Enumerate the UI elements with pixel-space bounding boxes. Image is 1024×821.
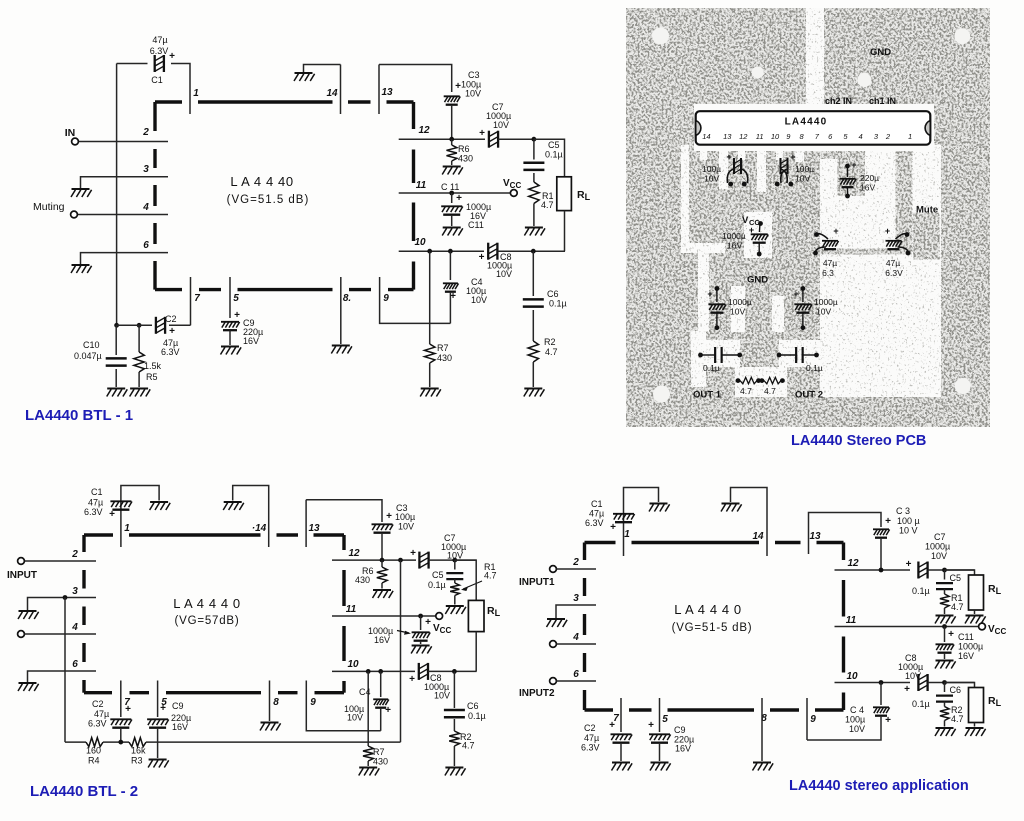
capacitor C9 220u 16V	[221, 322, 240, 330]
svg-text:4: 4	[859, 132, 863, 141]
ground C2 (stereo)	[612, 763, 633, 771]
svg-text:0.1µ: 0.1µ	[703, 363, 720, 373]
wire pin2	[557, 568, 597, 570]
svg-text:+: +	[948, 629, 954, 640]
wire RL1 bottom	[974, 610, 976, 614]
ground R5	[130, 389, 151, 397]
svg-text:+: +	[904, 684, 910, 695]
terminal INPUT1	[550, 566, 557, 573]
svg-text:+: +	[648, 720, 654, 731]
node rail-R5	[137, 323, 142, 328]
load RL1 (stereo)	[945, 570, 975, 575]
svg-text:10 V: 10 V	[899, 526, 918, 536]
svg-text:LA4440 stereo application: LA4440 stereo application	[789, 778, 969, 794]
svg-text:13: 13	[308, 523, 320, 534]
wire pin8 (stereo)	[761, 698, 763, 761]
svg-text:(VG=51.5 dB): (VG=51.5 dB)	[227, 194, 310, 206]
ground RL1	[965, 616, 986, 624]
wire pin14 bracket	[731, 488, 768, 557]
node pin12-C5 (stereo)	[942, 568, 947, 573]
svg-text:+: +	[906, 559, 912, 570]
svg-text:+: +	[885, 715, 891, 726]
svg-text:10V: 10V	[795, 174, 810, 184]
feedback row R4 R3	[65, 741, 86, 743]
svg-text:GND: GND	[747, 275, 768, 286]
capacitor C3 100u 10V	[444, 96, 461, 104]
title: LA4440 stereo PCB panel	[0, 0, 1, 1]
op-amp U3 LA4440 IC body (stereo)	[585, 543, 844, 711]
ground C11 (stereo)	[935, 661, 956, 669]
svg-text:430: 430	[458, 154, 473, 164]
svg-text:12: 12	[847, 558, 859, 569]
svg-text:+: +	[609, 720, 615, 731]
svg-text:LA4440 BTL - 2: LA4440 BTL - 2	[30, 783, 138, 800]
svg-text:1: 1	[908, 132, 912, 141]
svg-text:5: 5	[233, 293, 239, 304]
wire pin3	[81, 177, 169, 188]
svg-text:+: +	[726, 152, 731, 162]
svg-text:16V: 16V	[727, 241, 742, 251]
svg-text:14: 14	[702, 132, 710, 141]
pcb capacitor 47u 6.3V right	[896, 234, 909, 253]
IC footprint LA4440 on PCB	[694, 104, 934, 151]
wire pin13 to C3	[379, 65, 452, 93]
node pin12-C3	[449, 137, 454, 142]
svg-text:R2: R2	[544, 337, 556, 347]
svg-text:10V: 10V	[465, 89, 481, 99]
wire RL riser	[455, 560, 476, 600]
node pin12-C3	[380, 558, 385, 563]
resistor R2 4.7 (stereo)	[944, 702, 946, 707]
svg-text:C3: C3	[468, 70, 480, 80]
svg-text:C5: C5	[950, 573, 962, 583]
svg-text:L A 4 4 40: L A 4 4 40	[230, 174, 293, 189]
svg-text:47µ: 47µ	[589, 509, 604, 519]
node pin10-C4	[378, 669, 383, 674]
svg-text:+: +	[160, 703, 166, 714]
wire pin11	[399, 192, 511, 194]
ground pin3	[71, 189, 92, 197]
svg-text:R6: R6	[458, 144, 470, 154]
svg-text:IN: IN	[65, 127, 76, 139]
svg-text:1000µ: 1000µ	[728, 297, 752, 307]
capacitor C9 220u 16V (stereo)	[659, 698, 661, 732]
wire pin5 chain	[157, 681, 159, 718]
wire pin10	[399, 250, 484, 252]
wire pin10 row	[332, 670, 415, 672]
title: LA4440 BTL-2 schematic panel	[0, 0, 1, 1]
svg-text:4.7: 4.7	[545, 347, 558, 357]
svg-text:+: +	[833, 226, 838, 236]
svg-text:0.1µ: 0.1µ	[806, 363, 823, 373]
capacitor C1 47u 6.3V	[117, 63, 148, 65]
PCB copper islands inside channel	[820, 145, 940, 260]
capacitor C6 0.1u	[532, 251, 534, 296]
svg-text:2: 2	[142, 127, 149, 138]
wire pin9 to C4	[306, 681, 380, 731]
svg-text:47µ: 47µ	[152, 35, 167, 45]
svg-text:C11: C11	[468, 220, 484, 230]
svg-text:+: +	[410, 548, 416, 559]
ground R6	[373, 590, 394, 598]
svg-text:C4: C4	[359, 687, 371, 697]
resistor R5 1.5k	[138, 325, 140, 352]
svg-text:C 4: C 4	[850, 705, 864, 715]
svg-text:1.5k: 1.5k	[144, 361, 162, 371]
svg-text:16V: 16V	[675, 744, 691, 754]
resistor R1 4.7 (stereo)	[944, 589, 946, 594]
svg-text:10V: 10V	[931, 551, 947, 561]
PCB copper board textured background	[626, 8, 990, 427]
wire pin4	[25, 633, 97, 635]
svg-text:220µ: 220µ	[860, 173, 879, 183]
wire pin11 row	[332, 615, 436, 617]
svg-text:7: 7	[194, 293, 200, 304]
svg-text:6.3V: 6.3V	[88, 719, 107, 729]
svg-text:+: +	[125, 704, 131, 715]
svg-text:10V: 10V	[471, 295, 487, 305]
svg-text:0.1µ: 0.1µ	[549, 299, 567, 309]
svg-text:16V: 16V	[958, 651, 974, 661]
svg-text:10V: 10V	[496, 269, 512, 279]
pcb capacitor 1000u 16V at VCC	[758, 221, 763, 226]
wire feedback to riser	[146, 741, 401, 743]
svg-text:10V: 10V	[434, 691, 450, 701]
svg-text:C5: C5	[548, 140, 560, 150]
svg-text:GND: GND	[870, 47, 891, 58]
wire pin4 muting	[78, 214, 169, 216]
wire pin11 row (stereo)	[835, 626, 979, 628]
svg-text:0.1µ: 0.1µ	[912, 699, 930, 709]
ground pin8	[331, 346, 352, 354]
wire RL bottom	[475, 632, 477, 672]
svg-text:C11: C11	[958, 632, 974, 642]
ground C10	[107, 389, 128, 397]
node pin3 rail	[63, 595, 68, 600]
wire pin12 row (stereo)	[835, 569, 911, 571]
ground R2 (stereo)	[935, 728, 956, 736]
svg-text:R3: R3	[131, 756, 143, 766]
wire pin6	[557, 680, 597, 682]
svg-text:10: 10	[846, 671, 858, 682]
svg-text:8.: 8.	[343, 293, 351, 304]
svg-text:C2: C2	[584, 723, 596, 733]
svg-text:+: +	[479, 128, 485, 139]
node pin10-C4	[448, 249, 453, 254]
node pin12-C5	[452, 558, 457, 563]
svg-text:9: 9	[310, 697, 316, 708]
svg-text:LA4440: LA4440	[785, 117, 828, 128]
capacitor C8 1000u 10V	[488, 243, 497, 260]
svg-text:C6: C6	[547, 289, 559, 299]
ground pin3	[547, 619, 568, 627]
svg-text:R7: R7	[437, 343, 449, 353]
svg-text:INPUT1: INPUT1	[519, 577, 555, 588]
svg-text:4: 4	[142, 202, 149, 213]
svg-text:+: +	[450, 291, 456, 302]
svg-text:6.3V: 6.3V	[150, 46, 169, 56]
svg-text:+: +	[790, 152, 795, 162]
svg-text:+: +	[479, 252, 485, 263]
terminal VCC (stereo)	[979, 623, 986, 630]
svg-text:ch1 IN: ch1 IN	[869, 96, 896, 106]
svg-text:1000µ: 1000µ	[958, 642, 983, 652]
svg-text:+: +	[885, 226, 890, 236]
svg-text:6.3V: 6.3V	[84, 507, 103, 517]
capacitor C5 0.1u (stereo)	[944, 570, 946, 580]
ground R7	[420, 389, 441, 397]
capacitor C2 47u 6.3V (BTL-2)	[120, 681, 122, 718]
svg-text:4.7: 4.7	[740, 386, 752, 396]
ground R2	[524, 389, 545, 397]
wire pin14 bracket to ground	[233, 486, 269, 548]
svg-text:C1: C1	[591, 499, 603, 509]
title: LA4440 BTL-1 schematic panel	[0, 0, 1, 1]
svg-text:+: +	[409, 674, 415, 685]
capacitor C10 0.047u	[115, 325, 117, 355]
svg-text:10V: 10V	[816, 307, 831, 317]
svg-text:C10: C10	[83, 340, 100, 350]
svg-text:LA4440 BTL - 1: LA4440 BTL - 1	[25, 407, 133, 424]
resistor R2 4.7	[528, 341, 538, 362]
svg-text:C 3: C 3	[896, 506, 910, 516]
svg-text:0.1µ: 0.1µ	[468, 711, 486, 721]
capacitor C7 1000u 10V (BTL-2)	[419, 552, 428, 569]
IC pad numbers row	[702, 132, 912, 141]
svg-text:1: 1	[193, 88, 199, 99]
svg-text:R7: R7	[373, 747, 385, 757]
node pin11-C11 (stereo)	[942, 624, 947, 629]
pcb capacitor 0.1u right	[777, 353, 782, 358]
node pin10-C6	[531, 249, 536, 254]
ground R7	[359, 768, 380, 776]
ground RL2	[965, 728, 986, 736]
svg-text:13: 13	[809, 531, 821, 542]
svg-text:16V: 16V	[172, 722, 188, 732]
svg-text:4: 4	[572, 632, 579, 643]
svg-text:+: +	[109, 509, 115, 520]
pcb capacitor 0.1u left	[698, 353, 703, 358]
wire pin4	[557, 643, 597, 645]
wire pin10 row (stereo)	[835, 682, 911, 684]
capacitor C8 1000u 10V (BTL-2)	[419, 663, 428, 680]
svg-text:12: 12	[348, 548, 360, 559]
terminal Muting	[71, 211, 78, 218]
resistor R7 430 (BTL-2)	[367, 671, 369, 746]
svg-text:47µ: 47µ	[584, 733, 599, 743]
capacitor C8 1000u 10V (stereo)	[918, 674, 927, 691]
svg-text:3: 3	[573, 593, 579, 604]
wire pin8	[340, 277, 342, 344]
capacitor C7 1000u 10V	[489, 131, 498, 148]
load RL (BTL-2)	[468, 600, 484, 631]
terminal INPUT	[18, 558, 25, 565]
PCB routing channels (etched white areas)	[681, 8, 941, 397]
ground C9	[148, 760, 169, 768]
resistor R4 160	[86, 738, 103, 747]
PCB overall faint speckle overlay	[626, 8, 990, 427]
resistor R1 4.7 (BTL-2)	[454, 579, 456, 583]
ground R6	[442, 167, 463, 175]
capacitor C11 1000u 16V (stereo)	[944, 627, 946, 643]
svg-text:+: +	[851, 160, 856, 170]
svg-text:1000µ: 1000µ	[814, 297, 838, 307]
svg-text:4.7: 4.7	[764, 386, 776, 396]
capacitor C9 220u 16V (BTL-2)	[147, 719, 169, 727]
node pin11-C11	[449, 191, 454, 196]
svg-text:9: 9	[383, 293, 389, 304]
svg-text:+: +	[234, 310, 240, 321]
resistor R6 430 (BTL-2)	[381, 560, 383, 567]
ground C1 bracket	[150, 502, 171, 510]
svg-text:1: 1	[124, 523, 130, 534]
svg-text:430: 430	[373, 757, 388, 767]
op-amp U2 LA4440 IC body (BTL-2)	[84, 535, 344, 693]
svg-text:12: 12	[739, 132, 748, 141]
svg-text:+: +	[169, 51, 175, 62]
ground C9	[221, 347, 242, 355]
wire left feedback rail	[116, 64, 118, 326]
svg-text:C6: C6	[950, 685, 962, 695]
node pin12-feedback	[398, 558, 403, 563]
resistor R1 4.7	[533, 173, 535, 182]
svg-text:C7: C7	[934, 532, 946, 542]
svg-text:L A 4 4 4 0: L A 4 4 4 0	[173, 596, 241, 611]
ground C1 bracket	[649, 504, 670, 512]
capacitor C4 100u 10V	[449, 251, 451, 280]
capacitor C2 47u 6.3V (stereo)	[620, 698, 622, 732]
svg-text:14: 14	[326, 88, 338, 99]
svg-text:16V: 16V	[243, 336, 259, 346]
ground pin6	[71, 265, 92, 273]
wire pin13 stub	[378, 65, 380, 115]
svg-text:10V: 10V	[347, 713, 363, 723]
load RL2 (stereo)	[945, 683, 975, 688]
pcb capacitor 1000u 10V right	[801, 286, 806, 291]
svg-text:10V: 10V	[730, 307, 745, 317]
ground R1	[445, 606, 466, 614]
svg-text:·14: ·14	[252, 523, 267, 534]
ground pin8	[260, 723, 281, 731]
svg-text:6: 6	[573, 669, 579, 680]
svg-text:4.7: 4.7	[484, 571, 497, 581]
svg-text:100µ: 100µ	[702, 164, 721, 174]
node rail-C10	[114, 323, 119, 328]
wire pin13 to C3	[306, 500, 382, 522]
svg-text:OUT 1: OUT 1	[693, 390, 722, 401]
svg-text:9: 9	[810, 714, 816, 725]
wire feedback riser	[400, 560, 402, 742]
ground C11	[442, 228, 463, 236]
svg-text:5: 5	[662, 714, 668, 725]
wire pin12	[399, 138, 485, 140]
wire pin6	[81, 253, 169, 264]
svg-text:+: +	[385, 705, 391, 716]
svg-text:13: 13	[381, 87, 393, 98]
node pin12-C3 (stereo)	[879, 568, 884, 573]
svg-text:10V: 10V	[398, 522, 414, 532]
pcb resistor 4.7 left	[736, 378, 741, 383]
svg-text:C2: C2	[165, 314, 177, 324]
svg-text:1: 1	[624, 529, 630, 540]
svg-text:16V: 16V	[374, 635, 390, 645]
svg-text:4.7: 4.7	[541, 200, 554, 210]
svg-text:4.7: 4.7	[951, 602, 964, 612]
svg-text:47µ: 47µ	[94, 709, 109, 719]
svg-text:+: +	[425, 617, 431, 628]
node pin10-C4 (stereo)	[879, 680, 884, 685]
ground pin8 (stereo)	[753, 763, 774, 771]
svg-text:11: 11	[346, 604, 357, 615]
wire RL bottom	[564, 211, 566, 252]
pcb capacitor 100u 10V right	[781, 158, 788, 183]
svg-text:6.3V: 6.3V	[161, 347, 180, 357]
wire pin8 gnd	[269, 681, 271, 722]
capacitor C1 47u 6.3V (BTL-2)	[121, 486, 159, 548]
node pin11-C11	[418, 614, 423, 619]
svg-text:100µ: 100µ	[795, 164, 814, 174]
svg-text:430: 430	[355, 575, 370, 585]
capacitor C6 0.1u (BTL-2)	[453, 671, 455, 708]
title: LA4440 stereo application panel	[0, 0, 1, 1]
svg-text:10V: 10V	[849, 724, 865, 734]
capacitor C3 100u 10V (BTL-2)	[372, 524, 394, 532]
svg-text:430: 430	[437, 353, 452, 363]
terminal pin4	[550, 641, 557, 648]
svg-text:1000µ: 1000µ	[722, 231, 746, 241]
capacitor C6 0.1u (stereo)	[944, 683, 946, 693]
svg-text:C1: C1	[151, 75, 163, 85]
svg-text:ch2 IN: ch2 IN	[825, 96, 852, 106]
node pin10-R7	[427, 249, 432, 254]
svg-text:100µ: 100µ	[845, 715, 865, 725]
pcb capacitor 47u 6.3 left	[815, 234, 828, 253]
capacitor C11 1000u 16V	[451, 193, 453, 203]
svg-text:C2: C2	[92, 699, 104, 709]
svg-text:C1: C1	[91, 487, 103, 497]
load RL	[557, 177, 572, 211]
wire pin6	[28, 671, 97, 682]
svg-text:11: 11	[416, 180, 427, 191]
terminal pin4	[18, 631, 25, 638]
svg-text:Mute: Mute	[916, 205, 938, 216]
svg-text:+: +	[707, 289, 712, 299]
svg-text:10V: 10V	[493, 120, 509, 130]
wire pin1 stub	[189, 90, 191, 114]
svg-text:R4: R4	[88, 756, 100, 766]
svg-text:10: 10	[771, 132, 780, 141]
svg-text:L A 4 4 4 0: L A 4 4 4 0	[674, 602, 742, 617]
svg-text:4: 4	[71, 622, 78, 633]
svg-text:11: 11	[846, 615, 857, 626]
svg-text:3: 3	[143, 164, 149, 175]
R1 pointer arrow	[463, 581, 482, 589]
svg-text:(VG=57dB): (VG=57dB)	[174, 615, 239, 627]
resistor R6 430	[451, 139, 453, 145]
svg-text:INPUT2: INPUT2	[519, 688, 555, 699]
wire pin13 stub	[305, 500, 307, 547]
wire pin5	[229, 277, 231, 318]
svg-text:+: +	[885, 516, 891, 527]
node pin10-C6 (stereo)	[942, 680, 947, 685]
wire pin3	[556, 605, 596, 618]
svg-text:0.1µ: 0.1µ	[545, 150, 563, 160]
capacitor C5 0.1u (BTL-2)	[454, 560, 456, 569]
svg-text:C5: C5	[432, 570, 444, 580]
svg-text:16V: 16V	[860, 183, 875, 193]
svg-text:12: 12	[418, 125, 430, 136]
ground R1 (stereo)	[935, 616, 956, 624]
